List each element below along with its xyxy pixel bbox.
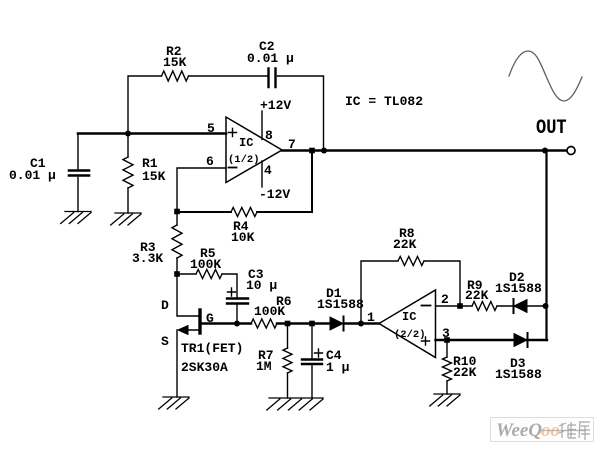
svg-text:WeeQ: WeeQ	[496, 420, 542, 441]
ground under R1	[111, 213, 141, 225]
svg-text:5: 5	[207, 121, 215, 136]
svg-text:1S1588: 1S1588	[495, 281, 542, 296]
node R7 tap	[285, 321, 291, 327]
wire right vertical to OUT	[545, 151, 547, 341]
wire output net	[282, 149, 567, 151]
svg-text:22K: 22K	[465, 288, 489, 303]
svg-text:OUT: OUT	[536, 117, 567, 140]
node pin2 junction	[457, 303, 463, 309]
resistor R5	[177, 274, 237, 297]
svg-text:D: D	[161, 298, 169, 313]
resistor R9	[472, 302, 497, 311]
node C4 tap	[309, 321, 315, 327]
resistor R7	[287, 324, 289, 398]
ground under R10	[430, 394, 460, 406]
svg-text:0.01 μ: 0.01 μ	[247, 51, 294, 66]
node pin6 junction	[174, 209, 180, 215]
svg-text:100K: 100K	[190, 257, 221, 272]
svg-text:IC: IC	[402, 310, 416, 324]
resistor R6	[251, 319, 277, 328]
pin 8 supply +12V	[261, 111, 263, 140]
diode D3 1S1588	[514, 334, 527, 347]
svg-text:10K: 10K	[231, 230, 255, 245]
ground under C1	[61, 212, 91, 224]
svg-text:15K: 15K	[142, 169, 166, 184]
svg-text:0.01 μ: 0.01 μ	[9, 168, 56, 183]
svg-text:3.3K: 3.3K	[132, 251, 163, 266]
resistor R10	[446, 340, 448, 394]
ground under R7 C4	[267, 398, 323, 410]
svg-text:2SK30A: 2SK30A	[181, 360, 228, 375]
watermark WeeQoo box	[491, 418, 594, 442]
svg-text:(2/2): (2/2)	[394, 329, 426, 341]
svg-text:2: 2	[441, 292, 449, 307]
svg-text:+12V: +12V	[260, 98, 291, 113]
wire inverting feedback	[177, 153, 312, 212]
waveform sine	[509, 51, 582, 101]
svg-text:IC = TL082: IC = TL082	[345, 94, 423, 109]
op-amp U1 IC(1/2)	[226, 117, 282, 183]
svg-text:10 μ: 10 μ	[246, 278, 277, 293]
resistor R3	[176, 214, 178, 274]
node R8 tap bottom	[358, 321, 364, 327]
resistor R8 feedback	[361, 261, 460, 324]
ground under TR1 source	[159, 397, 189, 409]
node R4 tap	[309, 148, 315, 154]
svg-text:(1/2): (1/2)	[228, 154, 260, 166]
wire pin3 net	[436, 339, 548, 341]
node junction main input	[125, 131, 131, 137]
node R3/R5 junction	[174, 271, 180, 277]
svg-text:4: 4	[264, 163, 272, 178]
svg-text:IC: IC	[239, 136, 253, 150]
svg-text:100K: 100K	[254, 304, 285, 319]
wire top feedback loop	[128, 76, 324, 151]
svg-text:6: 6	[206, 154, 214, 169]
capacitor C2	[269, 69, 276, 88]
diode D1 1S1588	[330, 317, 343, 330]
transistor TR1 2SK30A FET	[177, 276, 199, 316]
svg-text:1M: 1M	[256, 359, 272, 374]
svg-text:1: 1	[367, 310, 375, 325]
svg-text:TR1(FET): TR1(FET)	[181, 341, 243, 356]
diode D2 1S1588	[514, 300, 527, 313]
node pin3 junction	[444, 337, 450, 343]
node D2 right junction	[543, 303, 549, 309]
wire noninverting input	[78, 132, 226, 135]
capacitor C3	[227, 299, 248, 304]
svg-text:-12V: -12V	[259, 187, 290, 202]
node OUT junction	[542, 148, 548, 154]
svg-text:8: 8	[265, 128, 273, 143]
wire gate signal line	[201, 322, 379, 324]
node C3 tap	[234, 321, 240, 327]
terminal OUT	[567, 147, 575, 155]
svg-text:1S1588: 1S1588	[317, 297, 364, 312]
watermark CJK glyphs	[559, 422, 590, 440]
svg-text:22K: 22K	[453, 365, 477, 380]
capacitor C1	[77, 134, 79, 212]
resistor R4	[231, 208, 257, 217]
node C2 tap	[321, 148, 327, 154]
svg-text:S: S	[161, 334, 169, 349]
pin 4 supply -12V	[261, 161, 263, 187]
capacitor C4	[311, 324, 313, 398]
op-amp U2 IC(2/2)	[379, 290, 436, 358]
svg-text:22K: 22K	[393, 237, 417, 252]
resistor R2	[162, 71, 189, 81]
resistor R1	[127, 134, 129, 214]
svg-text:15K: 15K	[163, 55, 187, 70]
svg-text:1S1588: 1S1588	[495, 367, 542, 382]
svg-text:1 μ: 1 μ	[326, 360, 350, 375]
wire pin2 net	[436, 305, 548, 307]
